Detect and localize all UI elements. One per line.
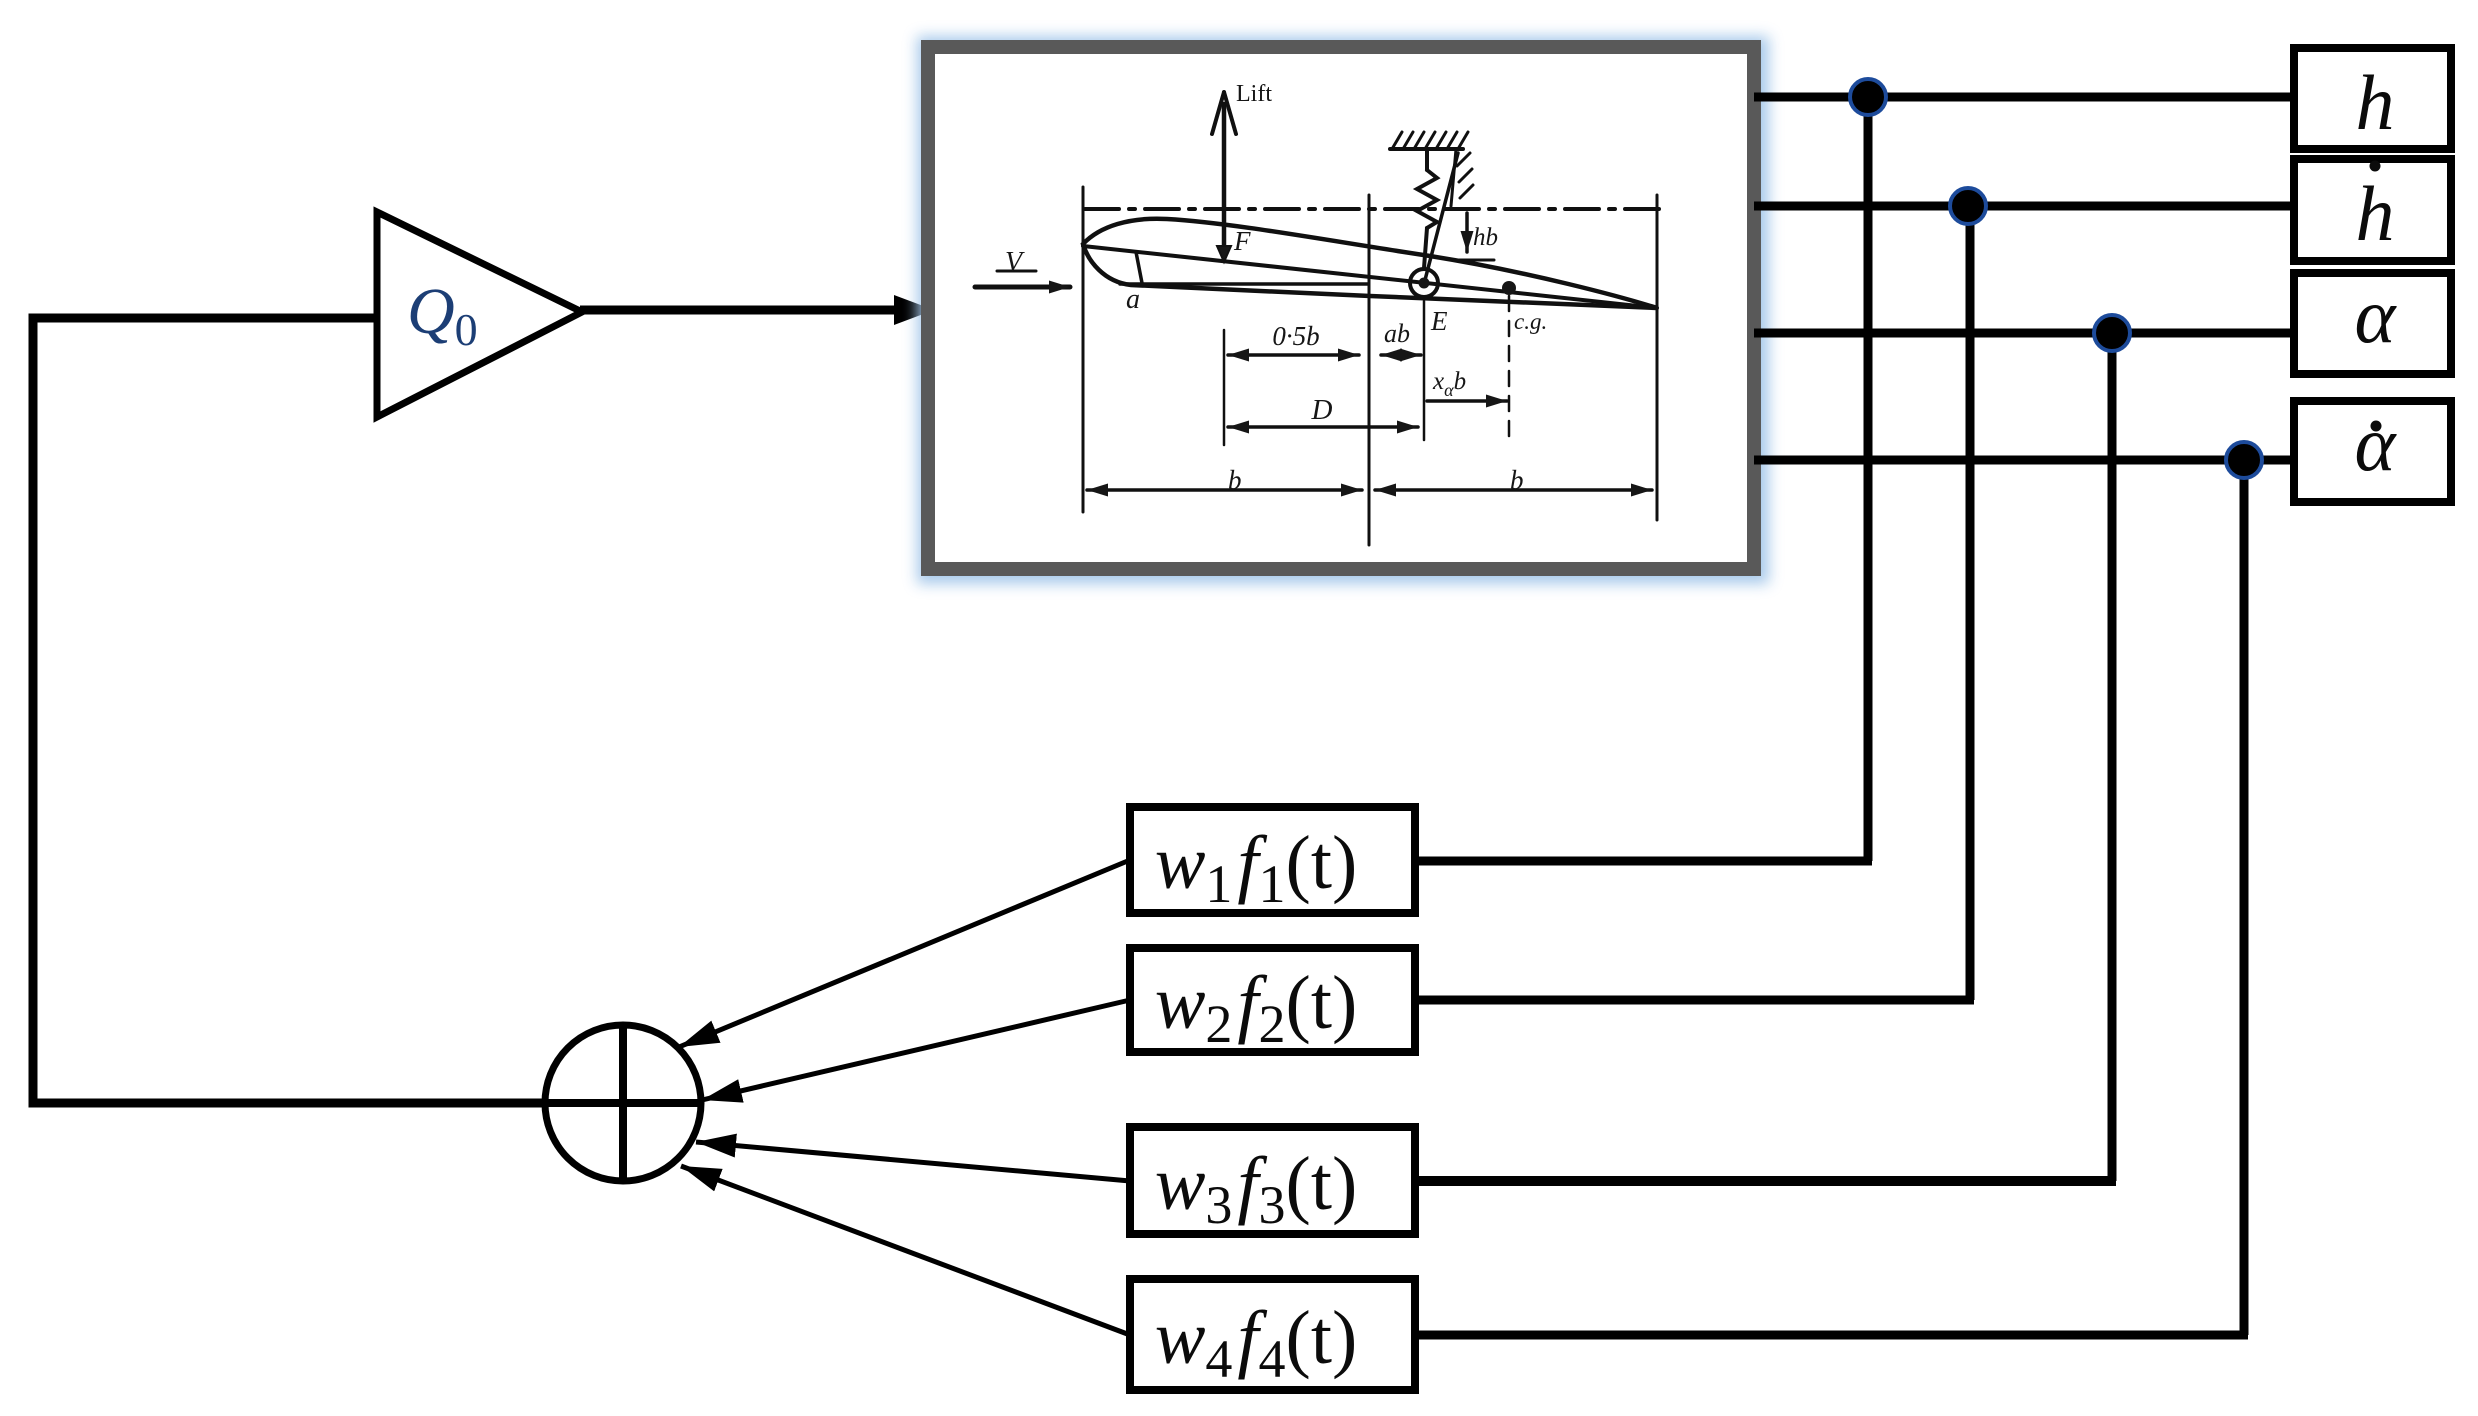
pivot E inner dot (1419, 278, 1430, 289)
arrowhead into plant box (894, 295, 934, 325)
wire w4 to tap 4 (1419, 1331, 2248, 1340)
svg-text:V: V (1005, 247, 1025, 278)
svg-text:w3f3(t): w3f3(t) (1155, 1142, 1358, 1235)
ceiling hatch ticks (1392, 132, 1468, 149)
svg-text:hb: hb (1473, 224, 1498, 251)
plant box glow (930, 49, 1756, 571)
hb dimension arrow (1465, 213, 1469, 252)
wire tap vertical 1 (1864, 97, 1873, 861)
svg-text:Lift: Lift (1236, 81, 1272, 107)
summing junction circle (545, 1025, 701, 1181)
summing junction cross vertical (619, 1025, 627, 1181)
arrow w4 to summing junction (681, 1166, 1130, 1335)
summing junction cross horizontal (545, 1099, 701, 1107)
svg-text:D: D (1311, 394, 1333, 426)
velocity arrow V (975, 285, 1070, 290)
svg-text:0·5b: 0·5b (1272, 321, 1319, 351)
alpha angle tick (1136, 252, 1142, 283)
svg-text:α: α (2355, 400, 2398, 487)
svg-text:h: h (2356, 170, 2395, 257)
dimension line left station (1082, 187, 1085, 512)
c.g. dot (1502, 281, 1516, 295)
svg-text:E: E (1430, 306, 1448, 336)
F station tick (1223, 330, 1226, 445)
airfoil chord line (1083, 246, 1657, 308)
airfoil outline (1083, 219, 1657, 308)
wire tap vertical 2 (1966, 206, 1975, 1000)
alpha reference line (1120, 282, 1368, 286)
dim ab (1381, 353, 1421, 357)
svg-text:c.g.: c.g. (1514, 309, 1547, 334)
wire w2 to tap 2 (1419, 996, 1974, 1005)
dim b right (1375, 488, 1652, 492)
V underline (997, 270, 1036, 273)
spring top link (1425, 149, 1429, 170)
arrow w2 to summing junction (702, 1000, 1130, 1100)
dim D (1228, 425, 1418, 429)
junction dot 1 (1850, 79, 1886, 115)
lift arrow lower tip (1217, 246, 1231, 262)
output box h (2294, 48, 2451, 149)
c.g. station dashed line (1508, 296, 1511, 438)
wire: Q0 output to plant box with arrowhead (580, 306, 896, 315)
op-amp gain triangle Q0 (377, 212, 582, 417)
dim b left (1087, 488, 1362, 492)
wall hatch ticks right (1451, 149, 1473, 206)
diagonal strut (1425, 153, 1458, 280)
box w2f2(t) (1130, 948, 1415, 1052)
dim x_a b (1427, 399, 1507, 403)
svg-text:w2f2(t): w2f2(t) (1155, 961, 1358, 1054)
box w3f3(t) (1130, 1127, 1415, 1234)
wire alpha-dot output (1754, 456, 2290, 465)
wire h output (1754, 93, 2290, 102)
wire w1 to tap 1 (1419, 857, 1872, 866)
spring bottom link (1424, 228, 1427, 268)
svg-text:b: b (1510, 465, 1524, 495)
lift arrow open head (1212, 92, 1236, 134)
pivot station line (1423, 301, 1426, 440)
svg-text:w4f4(t): w4f4(t) (1155, 1296, 1358, 1389)
lift arrow shaft (1222, 104, 1227, 252)
box w1f1(t) (1130, 807, 1415, 913)
pivot E outer circle (1410, 269, 1438, 297)
wire alpha output (1754, 329, 2290, 338)
wire tap vertical 3 (2108, 333, 2117, 1181)
svg-text:w1f1(t): w1f1(t) (1155, 821, 1358, 914)
wire h-dot output (1754, 202, 2290, 211)
dim 0.5b (1228, 353, 1359, 357)
svg-text:ab: ab (1384, 319, 1410, 348)
svg-text:h: h (2356, 59, 2395, 146)
junction dot 3 (2094, 315, 2130, 351)
svg-text:b: b (1228, 465, 1242, 495)
wire: feedback left vertical + bottom horizontal to summing junction (33, 318, 545, 1103)
arrow w3 to summing junction (696, 1142, 1130, 1181)
junction dot 2 (1950, 188, 1986, 224)
dash-dot centerline (1085, 207, 1660, 211)
wire w3 to tap 3 (1419, 1176, 2116, 1186)
box w4f4(t) (1130, 1279, 1415, 1390)
output box alpha-dot (2294, 401, 2451, 502)
plant box (airfoil figure frame) (928, 47, 1754, 569)
dimension line right station (1656, 195, 1659, 520)
output box h-dot (2294, 159, 2451, 261)
wire tap vertical 4 (2240, 460, 2249, 1335)
hb bottom tick (1458, 259, 1494, 262)
svg-text:F: F (1233, 226, 1251, 256)
svg-text:a: a (1126, 284, 1140, 315)
ceiling hatch line (1390, 147, 1463, 151)
svg-text:α: α (2355, 272, 2398, 359)
spring zigzag (1417, 170, 1437, 228)
output box alpha (2294, 273, 2451, 374)
junction dot 4 (2226, 442, 2262, 478)
arrow w1 to summing junction (679, 860, 1130, 1047)
dimension line mid station (1368, 195, 1371, 545)
